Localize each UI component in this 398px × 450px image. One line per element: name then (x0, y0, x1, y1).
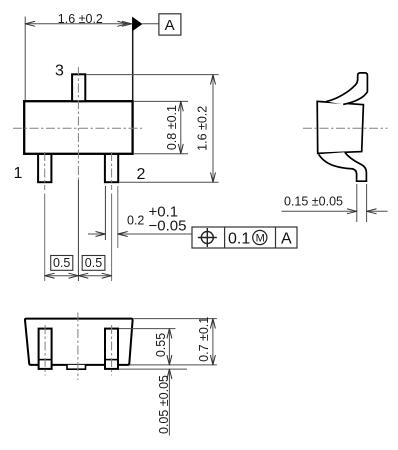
pin 1 foot line (39, 359, 52, 361)
extension line lead left (356, 184, 358, 222)
lead lower outline (319, 152, 367, 181)
centerline side view (303, 127, 388, 129)
extension line pin bottom (119, 368, 187, 370)
svg-text:0.2: 0.2 (127, 214, 144, 228)
dimension line (25, 23, 131, 25)
body outline (24, 101, 132, 154)
svg-text:1.6 ±0.2: 1.6 ±0.2 (195, 106, 209, 151)
svg-text:0.5: 0.5 (85, 256, 102, 270)
svg-text:A: A (165, 17, 175, 34)
svg-text:1.6 ±0.2: 1.6 ±0.2 (58, 12, 103, 26)
svg-text:0.05 ±0.05: 0.05 ±0.05 (157, 375, 171, 434)
svg-text:0.15 ±0.05: 0.15 ±0.05 (284, 195, 343, 209)
body side (317, 101, 363, 153)
boxed 0.5 second (82, 256, 105, 271)
svg-text:2: 2 (137, 166, 146, 183)
pin 3 (72, 74, 85, 101)
pin 1 front (39, 329, 52, 369)
pin 2 front (105, 329, 118, 369)
svg-text:0.55: 0.55 (154, 333, 168, 357)
extension line pins bottom (119, 181, 219, 183)
modifier M circle (253, 230, 267, 244)
lead lower fill (319, 152, 367, 181)
extension line body top (134, 318, 217, 320)
extension line body bottom (130, 364, 217, 366)
svg-text:1: 1 (14, 165, 23, 182)
extension line pin2 center (111, 194, 113, 282)
svg-text:0.1: 0.1 (228, 231, 250, 248)
right shaft to control frame (118, 233, 192, 235)
svg-text:M: M (256, 233, 265, 245)
centerline horizontal (13, 127, 142, 129)
extension line pin2 right edge (117, 186, 119, 248)
extension line right (body edge extended) (132, 24, 134, 100)
pin 3 tab (67, 365, 86, 369)
extension line package center (77, 180, 79, 281)
svg-text:0.7 ±0.1: 0.7 ±0.1 (197, 317, 211, 362)
svg-text:0.8 ±0.1: 0.8 ±0.1 (165, 105, 179, 150)
extension line left (24, 17, 26, 101)
pin 2 foot line (105, 359, 118, 361)
lead 3 upper fill (326, 73, 367, 105)
svg-text:−0.05: −0.05 (149, 218, 187, 235)
boxed 0.5 first (51, 256, 73, 271)
extension line pin3 top (86, 74, 219, 76)
body outline (25, 319, 133, 365)
svg-text:3: 3 (55, 63, 64, 80)
left outside arrow (88, 233, 105, 235)
dimension line 1.6 vertical (212, 75, 214, 183)
extension line pin1 center (44, 194, 46, 282)
extension line body bottom (134, 153, 188, 155)
extension line pin2 left edge (104, 186, 106, 240)
pin 2 centerline (111, 152, 113, 190)
extension line lead right (366, 184, 368, 222)
dimension 0.7 +-0.1 (212, 319, 214, 365)
svg-text:A: A (281, 231, 292, 248)
centerline vertical (77, 313, 79, 381)
centerline vertical (77, 67, 79, 180)
lead 3 upper outline (326, 73, 367, 105)
pin 1 (38, 154, 51, 182)
leader to datum box (142, 23, 159, 25)
feature control frame (192, 227, 297, 248)
dimension line 0.8 (180, 101, 182, 153)
pin 1 centerline (44, 152, 46, 190)
datum box A (159, 14, 181, 35)
dimension 0.05 +-0.05 standoff (168, 369, 170, 435)
right shaft (367, 210, 388, 212)
extension line pin top (119, 328, 176, 330)
svg-text:0.5: 0.5 (53, 256, 70, 270)
left shaft (282, 210, 357, 212)
extension line body top (134, 100, 188, 102)
pin 1 centerline (44, 325, 46, 376)
pin 2 centerline (111, 325, 113, 376)
dimension line (45, 275, 112, 277)
position symbol (201, 232, 213, 244)
dimension 0.55 (168, 329, 170, 365)
pin 2 (105, 154, 118, 182)
datum A triangle (132, 17, 142, 32)
